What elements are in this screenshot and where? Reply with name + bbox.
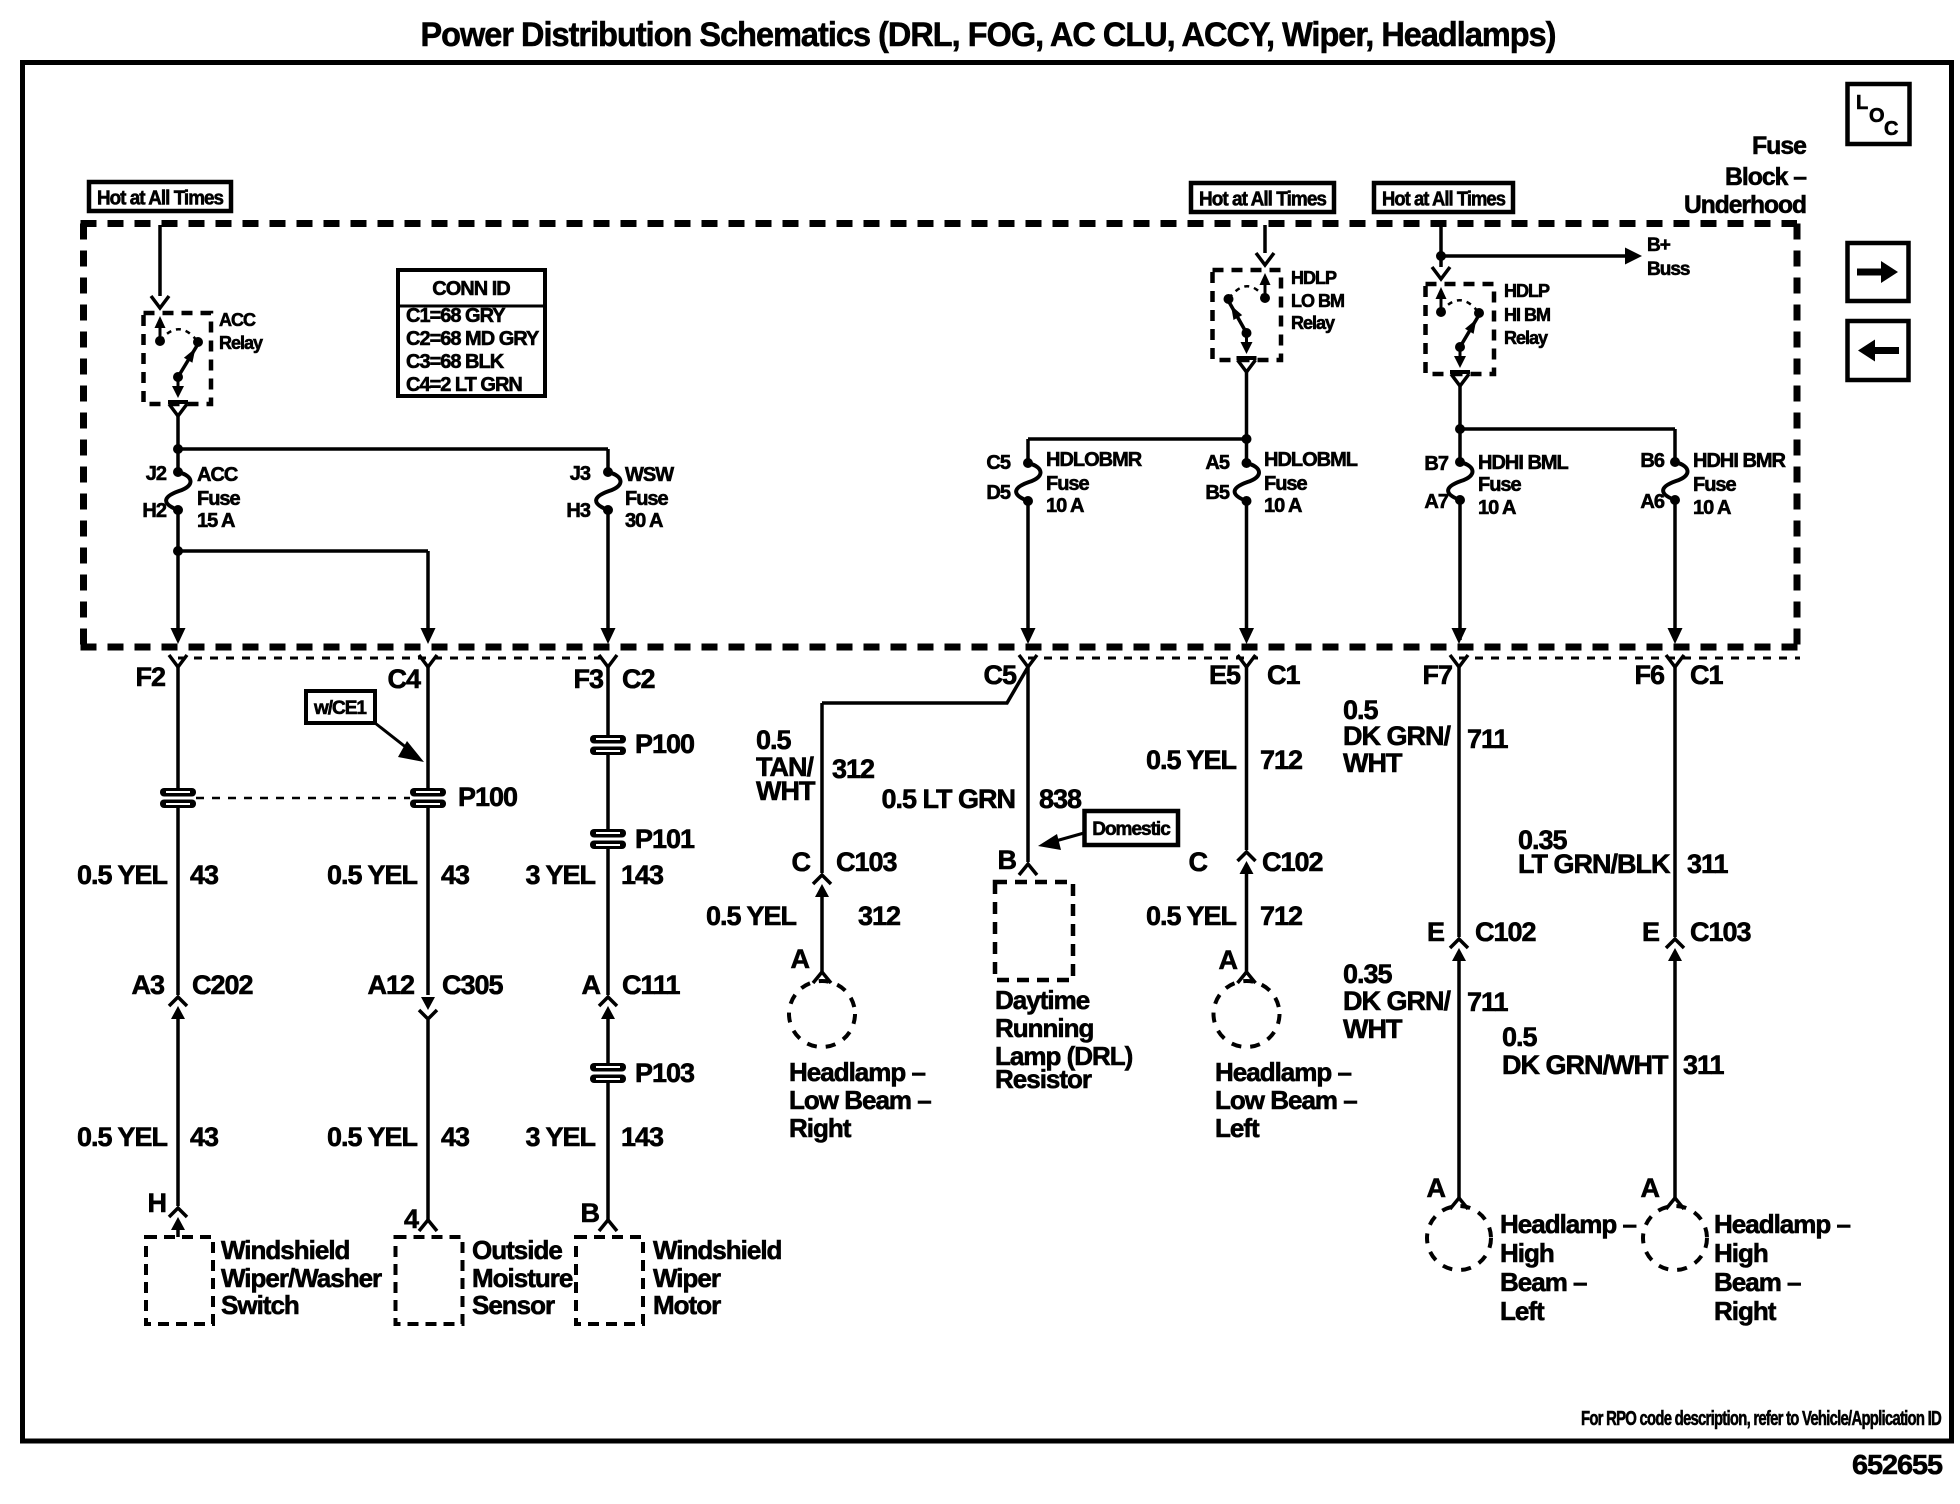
- svg-text:Wiper: Wiper: [653, 1263, 721, 1293]
- svg-text:Headlamp –: Headlamp –: [789, 1057, 925, 1087]
- svg-text:Headlamp –: Headlamp –: [1714, 1209, 1850, 1239]
- svg-text:10 A: 10 A: [1046, 495, 1084, 517]
- svg-text:Windshield: Windshield: [653, 1235, 782, 1265]
- svg-text:Motor: Motor: [653, 1290, 721, 1320]
- svg-text:711: 711: [1467, 724, 1509, 754]
- svg-text:A: A: [1219, 945, 1238, 975]
- svg-text:J3: J3: [570, 463, 591, 485]
- svg-text:3 YEL: 3 YEL: [525, 1122, 595, 1152]
- svg-text:711: 711: [1467, 987, 1509, 1017]
- svg-text:CONN ID: CONN ID: [432, 278, 510, 300]
- svg-text:Sensor: Sensor: [472, 1290, 555, 1320]
- svg-text:P100: P100: [458, 782, 517, 812]
- svg-text:0.35: 0.35: [1343, 959, 1393, 989]
- svg-text:WSW: WSW: [625, 464, 674, 486]
- svg-text:C111: C111: [622, 970, 681, 1000]
- svg-text:Hot at All Times: Hot at All Times: [1382, 189, 1506, 211]
- svg-text:C1=68 GRY: C1=68 GRY: [406, 305, 506, 327]
- svg-text:Fuse: Fuse: [1478, 474, 1522, 496]
- svg-text:Headlamp –: Headlamp –: [1500, 1209, 1636, 1239]
- svg-text:0.5: 0.5: [756, 725, 792, 755]
- svg-text:DK GRN/WHT: DK GRN/WHT: [1502, 1050, 1669, 1080]
- svg-text:ACC: ACC: [219, 310, 256, 330]
- svg-text:C2: C2: [622, 664, 655, 694]
- svg-text:P100: P100: [635, 729, 694, 759]
- svg-text:43: 43: [441, 860, 470, 890]
- svg-text:43: 43: [441, 1122, 470, 1152]
- svg-text:DK GRN/: DK GRN/: [1343, 721, 1451, 751]
- svg-text:P101: P101: [635, 824, 695, 854]
- svg-text:A12: A12: [367, 970, 414, 1000]
- svg-text:A: A: [1427, 1173, 1446, 1203]
- svg-text:0.5: 0.5: [1502, 1022, 1538, 1052]
- svg-text:A3: A3: [131, 970, 164, 1000]
- svg-text:B: B: [998, 845, 1017, 875]
- svg-text:H: H: [148, 1188, 167, 1218]
- svg-text:C3=68 BLK: C3=68 BLK: [406, 351, 505, 373]
- svg-text:D5: D5: [986, 482, 1010, 504]
- svg-text:Left: Left: [1215, 1113, 1260, 1143]
- svg-text:HDLP: HDLP: [1504, 281, 1550, 301]
- svg-text:HDLOBMR: HDLOBMR: [1046, 449, 1143, 471]
- svg-text:Windshield: Windshield: [221, 1235, 350, 1265]
- svg-text:C103: C103: [1690, 917, 1752, 947]
- svg-text:C1: C1: [1267, 660, 1300, 690]
- svg-text:O: O: [1869, 105, 1884, 127]
- svg-text:30 A: 30 A: [625, 510, 663, 532]
- svg-text:Fuse: Fuse: [1752, 132, 1807, 160]
- svg-text:For RPO code description, refe: For RPO code description, refer to Vehic…: [1581, 1408, 1941, 1430]
- svg-text:0.5 LT GRN: 0.5 LT GRN: [881, 784, 1015, 814]
- svg-text:0.5 YEL: 0.5 YEL: [327, 860, 418, 890]
- svg-text:E5: E5: [1209, 660, 1241, 690]
- svg-text:C103: C103: [836, 847, 898, 877]
- svg-text:HDLOBML: HDLOBML: [1264, 449, 1358, 471]
- svg-text:Power Distribution Schematics: Power Distribution Schematics (DRL, FOG,…: [421, 16, 1556, 54]
- svg-text:Outside: Outside: [472, 1235, 562, 1265]
- svg-text:Running: Running: [995, 1013, 1094, 1043]
- svg-text:HDHI BML: HDHI BML: [1478, 452, 1569, 474]
- svg-text:High: High: [1500, 1238, 1554, 1268]
- svg-text:838: 838: [1039, 784, 1082, 814]
- svg-text:C102: C102: [1475, 917, 1536, 947]
- svg-text:B5: B5: [1205, 482, 1229, 504]
- svg-text:C102: C102: [1262, 847, 1323, 877]
- svg-text:A6: A6: [1640, 491, 1664, 513]
- svg-text:Wiper/Washer: Wiper/Washer: [221, 1263, 382, 1293]
- svg-text:C2=68 MD GRY: C2=68 MD GRY: [406, 328, 540, 350]
- svg-text:0.5 YEL: 0.5 YEL: [77, 1122, 168, 1152]
- svg-text:B7: B7: [1424, 453, 1448, 475]
- svg-text:Low Beam –: Low Beam –: [1215, 1085, 1357, 1115]
- svg-text:312: 312: [858, 901, 900, 931]
- svg-text:Resistor: Resistor: [995, 1064, 1092, 1094]
- svg-text:652655: 652655: [1852, 1449, 1942, 1480]
- svg-text:A: A: [582, 970, 601, 1000]
- svg-text:Relay: Relay: [1504, 328, 1548, 348]
- svg-text:0.5 YEL: 0.5 YEL: [706, 901, 797, 931]
- svg-text:C5: C5: [986, 452, 1010, 474]
- svg-text:C4=2 LT GRN: C4=2 LT GRN: [406, 374, 522, 396]
- svg-text:311: 311: [1687, 849, 1729, 879]
- svg-text:WHT: WHT: [756, 776, 816, 806]
- svg-text:F3: F3: [573, 664, 603, 694]
- svg-text:B+: B+: [1647, 235, 1671, 256]
- svg-text:WHT: WHT: [1343, 748, 1403, 778]
- svg-text:43: 43: [190, 1122, 219, 1152]
- svg-text:High: High: [1714, 1238, 1768, 1268]
- svg-text:J2: J2: [146, 463, 167, 485]
- svg-text:C305: C305: [442, 970, 504, 1000]
- svg-text:Relay: Relay: [1291, 313, 1335, 333]
- svg-text:E: E: [1642, 917, 1659, 947]
- svg-text:F6: F6: [1634, 660, 1664, 690]
- svg-text:A: A: [1641, 1173, 1660, 1203]
- svg-text:0.5 YEL: 0.5 YEL: [1146, 745, 1237, 775]
- svg-text:10 A: 10 A: [1264, 495, 1302, 517]
- svg-text:Hot at All Times: Hot at All Times: [1199, 189, 1327, 211]
- svg-text:143: 143: [621, 1122, 664, 1152]
- svg-text:B: B: [581, 1198, 600, 1228]
- svg-text:Right: Right: [1714, 1296, 1777, 1326]
- svg-text:Fuse: Fuse: [625, 488, 669, 510]
- svg-text:10 A: 10 A: [1478, 497, 1516, 519]
- svg-text:712: 712: [1260, 745, 1302, 775]
- svg-text:Fuse: Fuse: [1264, 473, 1308, 495]
- svg-text:Fuse: Fuse: [1693, 474, 1737, 496]
- svg-text:Beam –: Beam –: [1500, 1267, 1587, 1297]
- svg-text:C: C: [1189, 847, 1208, 877]
- svg-text:Underhood: Underhood: [1684, 191, 1806, 219]
- svg-text:312: 312: [832, 754, 874, 784]
- svg-text:A: A: [791, 944, 810, 974]
- svg-text:Beam –: Beam –: [1714, 1267, 1801, 1297]
- svg-text:WHT: WHT: [1343, 1014, 1403, 1044]
- svg-text:C202: C202: [192, 970, 253, 1000]
- svg-text:HDHI BMR: HDHI BMR: [1693, 450, 1787, 472]
- svg-text:F2: F2: [135, 662, 165, 692]
- svg-text:C: C: [792, 847, 811, 877]
- svg-text:w/CE1: w/CE1: [313, 698, 367, 719]
- svg-text:712: 712: [1260, 901, 1302, 931]
- svg-text:0.5 YEL: 0.5 YEL: [327, 1122, 418, 1152]
- svg-text:E: E: [1427, 917, 1444, 947]
- svg-text:Left: Left: [1500, 1296, 1545, 1326]
- svg-text:B6: B6: [1640, 450, 1664, 472]
- svg-text:Daytime: Daytime: [995, 985, 1090, 1015]
- svg-text:F7: F7: [1422, 660, 1452, 690]
- svg-text:H3: H3: [566, 500, 590, 522]
- svg-text:LT GRN/BLK: LT GRN/BLK: [1518, 849, 1671, 879]
- svg-text:P103: P103: [635, 1058, 695, 1088]
- svg-text:Right: Right: [789, 1113, 852, 1143]
- svg-text:0.5 YEL: 0.5 YEL: [1146, 901, 1237, 931]
- svg-text:Block –: Block –: [1725, 163, 1807, 191]
- svg-text:A7: A7: [1424, 491, 1448, 513]
- svg-text:Domestic: Domestic: [1092, 819, 1171, 840]
- svg-text:3 YEL: 3 YEL: [525, 860, 595, 890]
- svg-text:Headlamp –: Headlamp –: [1215, 1057, 1351, 1087]
- svg-text:Moisture: Moisture: [472, 1263, 573, 1293]
- svg-text:Fuse: Fuse: [1046, 473, 1090, 495]
- svg-text:HDLP: HDLP: [1291, 268, 1337, 288]
- svg-text:C: C: [1884, 118, 1898, 140]
- svg-text:L: L: [1856, 92, 1868, 114]
- svg-text:HI BM: HI BM: [1504, 305, 1550, 325]
- svg-text:Fuse: Fuse: [197, 488, 241, 510]
- svg-text:C1: C1: [1690, 660, 1723, 690]
- svg-text:Buss: Buss: [1647, 259, 1690, 280]
- svg-text:DK GRN/: DK GRN/: [1343, 986, 1451, 1016]
- svg-text:Relay: Relay: [219, 333, 263, 353]
- svg-text:0.5 YEL: 0.5 YEL: [77, 860, 168, 890]
- svg-text:A5: A5: [1205, 452, 1229, 474]
- svg-text:H2: H2: [142, 500, 166, 522]
- svg-text:43: 43: [190, 860, 219, 890]
- svg-text:C4: C4: [387, 664, 420, 694]
- svg-text:4: 4: [404, 1204, 419, 1234]
- svg-text:Hot at All Times: Hot at All Times: [97, 188, 224, 210]
- svg-text:10 A: 10 A: [1693, 497, 1731, 519]
- svg-text:LO BM: LO BM: [1291, 291, 1344, 311]
- svg-text:Low Beam –: Low Beam –: [789, 1085, 931, 1115]
- svg-text:ACC: ACC: [197, 464, 238, 486]
- svg-text:Switch: Switch: [221, 1290, 299, 1320]
- svg-text:C5: C5: [983, 660, 1016, 690]
- svg-text:311: 311: [1683, 1050, 1725, 1080]
- svg-text:143: 143: [621, 860, 664, 890]
- svg-text:15 A: 15 A: [197, 510, 235, 532]
